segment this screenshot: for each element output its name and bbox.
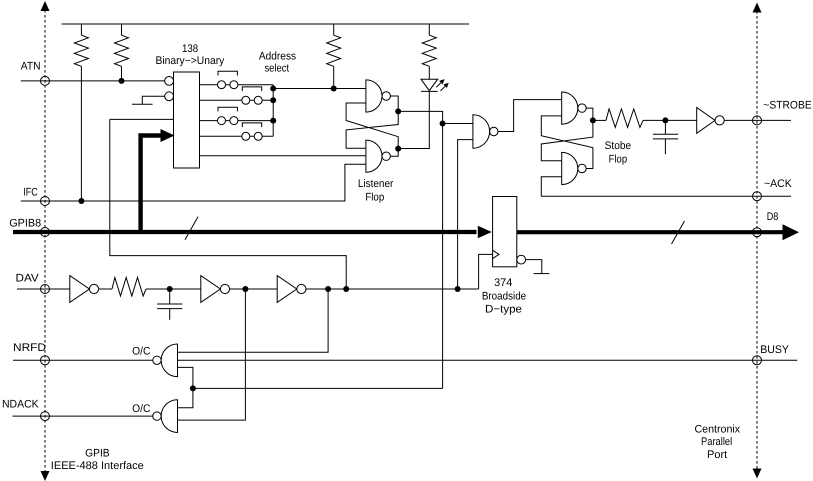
connector NRFD	[41, 356, 50, 365]
bus D8 arrowhead	[783, 224, 800, 240]
svg-text:O/C: O/C	[132, 346, 150, 358]
label Parallel	[701, 436, 732, 448]
junction S3-bus	[270, 118, 276, 124]
svg-text:Flop: Flop	[365, 191, 384, 203]
svg-text:ATN: ATN	[21, 61, 41, 73]
wire U7 input from node C	[178, 367, 193, 407]
switch S2	[242, 87, 262, 104]
inverter U6 (strobe driver)	[697, 108, 725, 134]
label Flop	[365, 191, 384, 203]
resistor R6 (strobe delay)	[606, 109, 643, 128]
capacitor C1	[157, 289, 182, 320]
wire LED cathode to listener-flop output node	[398, 91, 429, 148]
label Broadside	[482, 290, 526, 302]
wire DAV input	[17, 288, 70, 290]
label GPIB8	[9, 217, 41, 229]
decoder U1 74138 block	[174, 72, 200, 168]
U1 enable input wire (plain pin)	[110, 118, 174, 120]
bus D8 thick line	[517, 230, 783, 234]
junction DAV node D4	[343, 286, 349, 292]
wire NRFD	[13, 359, 153, 361]
wire U8 input from DAV node D2	[178, 289, 246, 420]
svg-text:BUSY: BUSY	[760, 344, 789, 356]
cross-couple wire U4a-out to U4b-in	[541, 120, 593, 160]
nand U7 (NRFD open-collector driver)	[153, 344, 178, 377]
junction node B tap to U3	[440, 121, 446, 127]
cross-couple wire U2b-out to U2a-in	[346, 103, 398, 149]
junction DAV node D3	[325, 286, 331, 292]
label O/C (U7)	[132, 346, 150, 358]
wire NRFD/BUSY long line	[178, 359, 798, 361]
U2a output wire	[390, 96, 398, 111]
wire U6 to ~STROBE	[724, 119, 791, 121]
svg-text:Binary−>Unary: Binary−>Unary	[155, 55, 224, 67]
svg-text:NDACK: NDACK	[2, 399, 39, 411]
bus GPIB8 arrowhead into U9	[478, 226, 492, 239]
svg-text:DAV: DAV	[16, 272, 40, 284]
label IEEE-488 Interface	[51, 460, 144, 472]
wire DAV-delay to U1 enable	[110, 119, 346, 289]
U4a output wire	[586, 108, 593, 120]
junction DAV node D2	[242, 286, 248, 292]
LED light arrows	[436, 79, 448, 91]
Centronics rail top arrow	[753, 3, 762, 13]
wire ATN	[21, 80, 165, 82]
wire IFC	[21, 164, 366, 201]
svg-text:138: 138	[182, 43, 198, 55]
nand U2b (listener flop bottom)	[366, 140, 391, 172]
U1 output wire O3	[200, 135, 274, 137]
connector BUSY	[753, 356, 762, 365]
connector ~STROBE	[753, 116, 762, 125]
wire flop to R6	[593, 119, 606, 121]
nand U4b (stobe flop bottom)	[562, 152, 587, 184]
wire U5b to U5c	[230, 288, 278, 290]
svg-text:Broadside: Broadside	[482, 290, 526, 302]
label NRFD	[13, 342, 46, 354]
svg-text:Listener: Listener	[358, 178, 394, 190]
wire U3 lower input from DAV-delay node	[458, 140, 473, 289]
connector DAV	[41, 285, 50, 294]
label Centronix	[694, 424, 740, 436]
nand U3	[473, 115, 498, 148]
svg-text:IEEE-488 Interface: IEEE-488 Interface	[51, 460, 144, 472]
resistor R5 (DAV delay)	[112, 278, 146, 297]
resistor R3 (listener flop pull-up)	[327, 24, 341, 89]
U9 /OE ground strap	[526, 260, 550, 274]
connector GPIB8	[41, 228, 50, 237]
latch U9 374 block	[493, 197, 517, 267]
label DAV	[16, 272, 40, 284]
wire R5 to C1 node	[146, 288, 201, 290]
wire switch bus to listener flop set input	[273, 88, 366, 90]
U1 output wire O2	[200, 120, 274, 122]
U9 /OE bubble	[517, 255, 526, 264]
svg-text:Address: Address	[259, 51, 297, 63]
svg-text:Parallel: Parallel	[701, 436, 732, 448]
switch common bus	[272, 85, 274, 137]
svg-text:GPIB: GPIB	[85, 448, 110, 460]
svg-text:IFC: IFC	[23, 186, 38, 198]
junction R3-node	[331, 86, 337, 92]
label ~STROBE	[763, 99, 811, 111]
inverter U5c	[277, 276, 306, 303]
wire node C to node B	[193, 387, 443, 389]
label O/C (U8)	[132, 403, 150, 415]
wire NDACK	[13, 415, 154, 417]
Centronics dashed boundary rail	[756, 11, 758, 470]
GPIB rail top arrow	[41, 1, 50, 11]
svg-text:Flop: Flop	[609, 153, 628, 165]
thick bus tap arrow into U1	[141, 129, 175, 232]
label D-type	[485, 304, 522, 316]
connector ATN	[41, 76, 50, 85]
junction R1-IFC	[78, 198, 84, 204]
label 374	[494, 277, 512, 289]
inverter U5b	[201, 276, 230, 303]
label Binary->Unary	[155, 55, 224, 67]
junction switch bus tap	[270, 86, 276, 92]
resistor R4 (LED series)	[422, 24, 436, 79]
connector D8	[753, 228, 762, 237]
connector ~ACK	[753, 192, 762, 201]
svg-text:~ACK: ~ACK	[764, 178, 792, 190]
svg-text:374: 374	[494, 277, 512, 289]
label Listener	[358, 178, 394, 190]
wire U2a-out to node B	[398, 111, 442, 388]
resistor R2 (pull-up)	[115, 24, 129, 81]
bus GPIB8 thick line	[13, 230, 477, 234]
wire R6 to C2 node	[643, 119, 697, 121]
U1 input bubble pin A (ATN)	[165, 77, 174, 86]
svg-text:D8: D8	[767, 211, 779, 223]
U1 output wire O1	[200, 99, 274, 101]
label BUSY	[760, 344, 789, 356]
wire U7 input from DAV node D3	[178, 289, 329, 352]
junction DAV node D5	[455, 286, 461, 292]
U9 clock wedge	[493, 250, 499, 258]
label select	[264, 63, 289, 75]
GPIB rail bottom arrow	[41, 471, 50, 481]
U1 input bubble pin B	[165, 92, 174, 101]
label ATN	[21, 61, 41, 73]
wire U5a to R5	[99, 288, 112, 290]
svg-text:O/C: O/C	[132, 403, 150, 415]
bus GPIB8 width slash	[185, 217, 198, 240]
wire ~ACK	[541, 195, 791, 197]
LED D1	[421, 79, 438, 91]
label Address	[259, 51, 297, 63]
junction C2 node	[662, 117, 668, 123]
U1 output wire O0	[200, 84, 274, 86]
connector IFC	[41, 197, 50, 206]
label D8	[767, 211, 779, 223]
svg-text:D−type: D−type	[485, 304, 522, 316]
junction U2a output	[395, 108, 401, 114]
resistor R1 (ATN pull-up)	[74, 24, 88, 201]
junction U2b output	[395, 146, 401, 152]
svg-text:Port: Port	[707, 449, 727, 461]
U2b output wire	[390, 149, 398, 157]
svg-text:select: select	[264, 63, 289, 75]
label ~ACK	[764, 178, 792, 190]
switch S4	[242, 123, 262, 140]
cross-couple wire U2a-out to U2b-in	[346, 111, 398, 148]
pull-up supply rail	[62, 23, 470, 25]
Centronics rail bottom arrow	[753, 469, 762, 479]
label GPIB	[85, 448, 110, 460]
label NDACK	[2, 399, 39, 411]
label 138	[182, 43, 198, 55]
U1 logic-low strap on pin B	[132, 96, 165, 104]
junction R2-ATN	[119, 78, 125, 84]
svg-text:Stobe: Stobe	[605, 140, 632, 152]
label IFC	[23, 186, 38, 198]
junction node C	[190, 385, 196, 391]
nand U8 (NDACK open-collector driver)	[153, 400, 178, 433]
wire U4b lower input from ACK	[541, 177, 561, 197]
cross-couple wire U4b-out to U4a-in	[541, 116, 593, 169]
switch S1	[218, 71, 238, 88]
nand U2a (listener flop top)	[366, 80, 391, 112]
U1 output wire O4 to listener flop	[200, 155, 366, 157]
bus D8 width slash	[672, 221, 685, 244]
wire node B to U3 input	[443, 123, 473, 125]
wire DAV to U9 clock	[479, 254, 493, 289]
inverter U5a	[70, 276, 99, 303]
label Flop2	[609, 153, 628, 165]
wire U5c output run	[306, 288, 479, 290]
junction U4a output	[590, 117, 596, 123]
svg-text:Centronix: Centronix	[694, 424, 740, 436]
svg-text:GPIB8: GPIB8	[9, 217, 41, 229]
GPIB interface dashed boundary rail	[44, 10, 46, 471]
connector NDACK	[41, 412, 50, 421]
svg-text:NRFD: NRFD	[13, 342, 46, 354]
switch S3	[218, 107, 238, 124]
junction S2-bus	[270, 97, 276, 103]
junction C1 node	[167, 286, 173, 292]
wire U3 output to stobe flop	[498, 100, 562, 132]
capacitor C2	[653, 120, 678, 154]
label Stobe	[605, 140, 632, 152]
nand U4a (stobe flop top)	[562, 92, 587, 124]
label Port	[707, 449, 727, 461]
svg-text:~STROBE: ~STROBE	[763, 99, 811, 111]
